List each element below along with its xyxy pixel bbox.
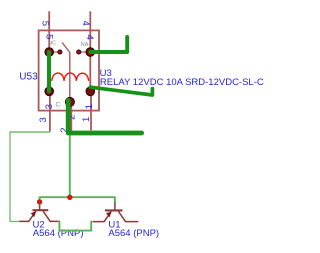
pin 3 stub	[49, 91, 51, 131]
wire from NA pad right then up (thick L)	[90, 37, 127, 52]
wire NC pad to pin3 pad (thick)	[47, 52, 51, 91]
wire base rail to U2 and U1 bases	[40, 197, 115, 206]
pad common pin2	[65, 97, 74, 106]
U2 collector lead	[43, 211, 59, 221]
svg-text:A564 (PNP): A564 (PNP)	[108, 228, 159, 239]
relay coil L1	[52, 73, 89, 81]
wire from pin1 pad diagonal right with end tick up	[90, 87, 152, 95]
svg-text:NC: NC	[48, 41, 56, 47]
relay common lever	[62, 43, 70, 98]
NA small contact dot	[77, 50, 81, 54]
pad pin1	[86, 87, 95, 96]
wire pin3 left, down left side, to U2 emitter	[10, 132, 50, 221]
internal line NA to pin1 pad	[89, 52, 91, 91]
pad pin3	[45, 87, 54, 96]
pin 5 stub	[48, 11, 50, 52]
U2 base pin	[39, 206, 41, 211]
svg-text:5: 5	[43, 34, 54, 39]
pin 2 stub	[70, 102, 72, 131]
svg-text:3: 3	[38, 117, 49, 122]
junction dot at base rail	[67, 195, 72, 200]
svg-text:RELAY 12VDC 10A SRD-12VDC-SL-C: RELAY 12VDC 10A SRD-12VDC-SL-C	[100, 77, 264, 88]
svg-text:U53: U53	[19, 71, 38, 82]
svg-text:4: 4	[80, 21, 91, 26]
pin 4 stub	[89, 11, 91, 52]
U1 bar	[105, 209, 123, 211]
internal line NC to pin3 pad	[48, 52, 50, 91]
svg-text:5: 5	[40, 21, 51, 26]
U1 emitter arrow	[106, 212, 112, 218]
NC small contact dot	[58, 50, 62, 54]
pad NA pin4	[86, 48, 95, 57]
U2 bar	[33, 209, 49, 211]
svg-text:3: 3	[44, 104, 55, 109]
NA contact tick	[81, 51, 86, 53]
pad NC pin5	[45, 48, 54, 57]
pin 1 stub	[90, 91, 92, 130]
U1 collector lead	[119, 212, 139, 222]
U1 emitter lead	[93, 212, 112, 222]
U2 emitter arrow	[31, 211, 37, 217]
svg-text:1: 1	[81, 117, 92, 122]
wire from thick wire down to base junction	[69, 135, 71, 197]
transistor U2 (PNP)	[19, 206, 59, 222]
transistor U1 (PNP)	[93, 202, 139, 222]
NC contact tick	[54, 51, 59, 53]
wire common pin2 down then right (thick)	[68, 100, 141, 133]
svg-text:C: C	[56, 101, 61, 108]
wire U2 collector to U1 emitter (U shape)	[59, 222, 91, 231]
U2 emitter lead	[19, 211, 36, 221]
svg-text:NA: NA	[81, 42, 89, 48]
relay U3 body box	[39, 30, 99, 110]
svg-text:4: 4	[84, 34, 95, 39]
svg-text:1: 1	[84, 104, 95, 109]
U1 base pin	[114, 202, 116, 210]
junction dot at U2 base	[37, 199, 42, 204]
